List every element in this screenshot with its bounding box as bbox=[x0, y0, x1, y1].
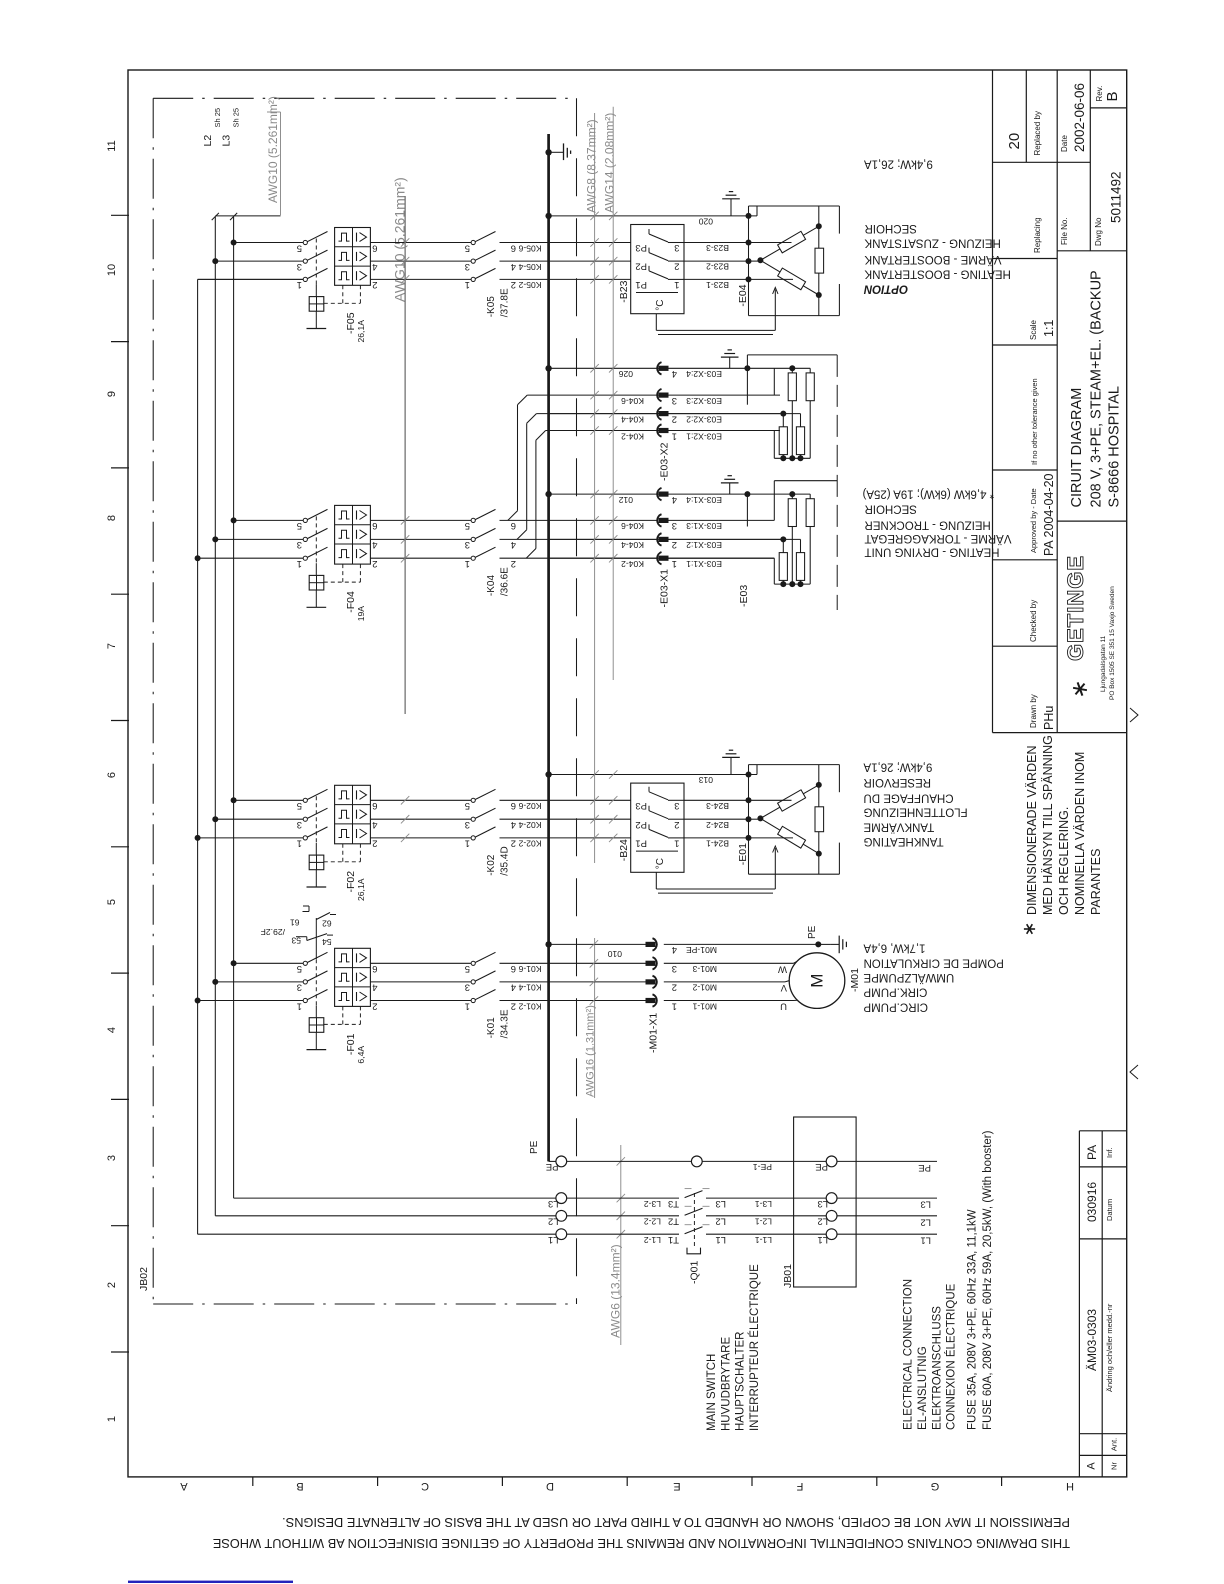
svg-text:E03-X2:2: E03-X2:2 bbox=[686, 414, 722, 424]
svg-text:L2: L2 bbox=[548, 1216, 559, 1227]
svg-text:MED HÄNSYN TILL SPÄNNING: MED HÄNSYN TILL SPÄNNING bbox=[1041, 735, 1055, 915]
svg-text:-K05: -K05 bbox=[486, 296, 497, 318]
svg-text:E03-X2:3: E03-X2:3 bbox=[686, 396, 722, 406]
svg-text:6,4A: 6,4A bbox=[356, 1046, 366, 1064]
svg-text:4: 4 bbox=[511, 539, 516, 550]
svg-text:JB02: JB02 bbox=[138, 1267, 150, 1291]
svg-text:010: 010 bbox=[607, 949, 622, 959]
svg-text:2002-06-06: 2002-06-06 bbox=[1072, 83, 1087, 152]
svg-text:B23-1: B23-1 bbox=[706, 280, 729, 290]
svg-text:62: 62 bbox=[322, 918, 332, 928]
svg-text:B: B bbox=[1104, 91, 1121, 101]
svg-text:1: 1 bbox=[297, 838, 302, 849]
svg-text:PE: PE bbox=[529, 1140, 540, 1154]
svg-text:3: 3 bbox=[465, 819, 470, 830]
svg-text:6: 6 bbox=[372, 242, 377, 253]
svg-text:FUSE 60A, 208V 3+PE, 60Hz 59A,: FUSE 60A, 208V 3+PE, 60Hz 59A, 20,5kW, (… bbox=[982, 1130, 994, 1430]
svg-text:DIMENSIONERADE VÄRDEN: DIMENSIONERADE VÄRDEN bbox=[1025, 746, 1039, 915]
svg-text:020: 020 bbox=[698, 216, 713, 226]
svg-text:8: 8 bbox=[106, 515, 118, 521]
svg-text:PARANTES: PARANTES bbox=[1089, 849, 1103, 915]
svg-text:3: 3 bbox=[672, 520, 677, 531]
svg-text:19A: 19A bbox=[356, 606, 366, 622]
svg-text:PE-1: PE-1 bbox=[753, 1162, 772, 1172]
svg-text:B: B bbox=[296, 1480, 303, 1492]
svg-text:UMWÄLZPUMPE: UMWÄLZPUMPE bbox=[863, 971, 954, 983]
svg-text:°C: °C bbox=[655, 858, 666, 869]
svg-text:P2: P2 bbox=[635, 819, 647, 830]
svg-text:3: 3 bbox=[297, 819, 302, 830]
svg-text:ELECTRICAL CONNECTION: ELECTRICAL CONNECTION bbox=[903, 1279, 915, 1430]
svg-text:2: 2 bbox=[372, 1000, 377, 1011]
svg-text:File No.: File No. bbox=[1060, 217, 1069, 245]
svg-text:3: 3 bbox=[672, 963, 677, 974]
svg-text:2: 2 bbox=[372, 279, 377, 290]
svg-text:1: 1 bbox=[297, 558, 302, 569]
svg-text:Inf.: Inf. bbox=[1105, 1148, 1114, 1158]
svg-text:T3: T3 bbox=[668, 1198, 679, 1209]
svg-text:T2: T2 bbox=[668, 1216, 679, 1227]
svg-text:L3: L3 bbox=[920, 1199, 931, 1210]
svg-text:2: 2 bbox=[672, 413, 677, 424]
svg-text:5: 5 bbox=[297, 242, 302, 253]
svg-text:T1: T1 bbox=[668, 1234, 679, 1245]
svg-text:9,4kW; 26,1A: 9,4kW; 26,1A bbox=[864, 157, 933, 169]
svg-text:L2: L2 bbox=[202, 135, 214, 147]
svg-text:L3: L3 bbox=[817, 1198, 828, 1209]
svg-text:6: 6 bbox=[372, 520, 377, 531]
svg-text:-E03: -E03 bbox=[738, 585, 750, 607]
svg-text:7: 7 bbox=[106, 643, 118, 649]
svg-text:-E03-X2: -E03-X2 bbox=[659, 442, 671, 481]
svg-text:2: 2 bbox=[106, 1282, 118, 1288]
svg-text:L1-1: L1-1 bbox=[755, 1235, 772, 1245]
svg-text:AWG16 (1.31mm²): AWG16 (1.31mm²) bbox=[585, 1005, 597, 1097]
svg-text:S-8666 HOSPITAL: S-8666 HOSPITAL bbox=[1107, 386, 1123, 507]
svg-text:AWG8 (8.37mm²): AWG8 (8.37mm²) bbox=[584, 119, 598, 213]
svg-text:E03-X1:3: E03-X1:3 bbox=[686, 521, 722, 531]
svg-text:ELEKTROANSCHLUSS: ELEKTROANSCHLUSS bbox=[931, 1306, 943, 1430]
svg-text:3: 3 bbox=[465, 539, 470, 550]
svg-text:Sh 25: Sh 25 bbox=[231, 108, 240, 128]
svg-text:4: 4 bbox=[672, 368, 677, 379]
svg-text:L2: L2 bbox=[715, 1216, 726, 1227]
svg-text:5: 5 bbox=[297, 963, 302, 974]
svg-text:PERMISSION IT MAY NOT BE COPIE: PERMISSION IT MAY NOT BE COPIED, SHOWN O… bbox=[282, 1515, 1070, 1530]
svg-text:MAIN SWITCH: MAIN SWITCH bbox=[706, 1354, 718, 1431]
svg-text:5: 5 bbox=[465, 520, 470, 531]
svg-text:POMPE DE CIRKULATION: POMPE DE CIRKULATION bbox=[864, 957, 1004, 969]
svg-text:012: 012 bbox=[618, 495, 633, 505]
svg-text:PE: PE bbox=[918, 1162, 931, 1173]
svg-text:5: 5 bbox=[465, 242, 470, 253]
svg-text:L1: L1 bbox=[548, 1234, 559, 1245]
svg-text:2: 2 bbox=[674, 261, 679, 272]
svg-text:K04-2: K04-2 bbox=[621, 431, 644, 441]
svg-text:K04-4: K04-4 bbox=[621, 414, 644, 424]
svg-text:6: 6 bbox=[106, 772, 118, 778]
svg-text:3: 3 bbox=[674, 242, 679, 253]
svg-text:K01-2: K01-2 bbox=[518, 1001, 541, 1011]
svg-text:TANKHEATING: TANKHEATING bbox=[863, 835, 943, 847]
svg-text:1: 1 bbox=[106, 1416, 118, 1422]
svg-text:/37.8E: /37.8E bbox=[500, 288, 511, 317]
svg-text:THIS DRAWING CONTAINS CONFIDEN: THIS DRAWING CONTAINS CONFIDENTIAL INFOR… bbox=[213, 1536, 1070, 1551]
svg-text:4: 4 bbox=[672, 944, 677, 955]
svg-text:/35.4D: /35.4D bbox=[500, 846, 511, 875]
svg-text:GETINGE: GETINGE bbox=[1063, 555, 1088, 661]
svg-text:V: V bbox=[780, 982, 787, 993]
svg-text:53: 53 bbox=[291, 935, 301, 945]
svg-text:L3: L3 bbox=[220, 135, 232, 147]
svg-text:SECHOIR: SECHOIR bbox=[865, 222, 917, 234]
svg-text:-B23: -B23 bbox=[618, 280, 630, 302]
svg-text:L1: L1 bbox=[817, 1234, 828, 1245]
svg-text:OPTION: OPTION bbox=[863, 282, 908, 294]
svg-text:1,7kW, 6,4A: 1,7kW, 6,4A bbox=[863, 942, 925, 954]
svg-text:2: 2 bbox=[372, 558, 377, 569]
svg-text:61: 61 bbox=[290, 918, 300, 928]
svg-text:CIRUIT DIAGRAM: CIRUIT DIAGRAM bbox=[1069, 388, 1085, 508]
svg-text:3: 3 bbox=[674, 800, 679, 811]
svg-text:EL-ANSLUTNIG: EL-ANSLUTNIG bbox=[917, 1346, 929, 1430]
svg-text:4: 4 bbox=[511, 261, 516, 272]
svg-text:W: W bbox=[778, 964, 787, 975]
svg-text:9,4kW; 26,1A: 9,4kW; 26,1A bbox=[863, 761, 932, 773]
svg-text:6: 6 bbox=[511, 242, 516, 253]
svg-text:L2-2: L2-2 bbox=[644, 1217, 661, 1227]
svg-text:PO Box 1505 SE 351 15 Vaxjo Sw: PO Box 1505 SE 351 15 Vaxjo Sweden bbox=[1109, 586, 1116, 700]
svg-text:6: 6 bbox=[372, 800, 377, 811]
svg-text:HEIZUNG - TROCKNER: HEIZUNG - TROCKNER bbox=[865, 518, 991, 530]
svg-text:If no other tolerance given: If no other tolerance given bbox=[1030, 378, 1039, 465]
svg-text:3: 3 bbox=[297, 539, 302, 550]
svg-text:G: G bbox=[931, 1480, 940, 1492]
svg-text:5: 5 bbox=[297, 800, 302, 811]
svg-text:E03-X2:4: E03-X2:4 bbox=[686, 369, 722, 379]
svg-text:Dwg No: Dwg No bbox=[1094, 217, 1103, 246]
svg-text:Sh 25: Sh 25 bbox=[213, 108, 222, 128]
svg-text:5: 5 bbox=[297, 520, 302, 531]
svg-text:Rev.: Rev. bbox=[1095, 86, 1104, 102]
svg-text:013: 013 bbox=[698, 775, 713, 785]
svg-text:L1-2: L1-2 bbox=[644, 1235, 661, 1245]
svg-text:-K01: -K01 bbox=[486, 1017, 497, 1039]
svg-text:B24-3: B24-3 bbox=[706, 801, 729, 811]
svg-text:K04-6: K04-6 bbox=[621, 521, 644, 531]
svg-text:10: 10 bbox=[106, 264, 118, 276]
svg-text:1: 1 bbox=[465, 838, 470, 849]
svg-text:M: M bbox=[808, 974, 827, 988]
svg-text:PE: PE bbox=[807, 925, 818, 939]
svg-text:-K02: -K02 bbox=[486, 854, 497, 876]
svg-text:VÄRME - BOOSTERTANK: VÄRME - BOOSTERTANK bbox=[864, 253, 1001, 265]
svg-text:026: 026 bbox=[618, 369, 633, 379]
svg-text:HAUPTSCHALTER: HAUPTSCHALTER bbox=[735, 1332, 747, 1431]
svg-text:K05-6: K05-6 bbox=[518, 243, 541, 253]
svg-text:P3: P3 bbox=[635, 242, 647, 253]
svg-text:Nr: Nr bbox=[1110, 1462, 1119, 1470]
svg-text:B24-2: B24-2 bbox=[706, 820, 729, 830]
svg-text:4: 4 bbox=[372, 819, 377, 830]
svg-text:PE: PE bbox=[815, 1161, 828, 1172]
svg-text:PA 2004-04-20: PA 2004-04-20 bbox=[1042, 473, 1056, 556]
svg-text:K04-2: K04-2 bbox=[621, 559, 644, 569]
svg-text:HEIZUNG - ZUSATSTANK: HEIZUNG - ZUSATSTANK bbox=[864, 237, 1001, 249]
svg-text:B24-1: B24-1 bbox=[706, 839, 729, 849]
svg-text:6: 6 bbox=[511, 520, 516, 531]
svg-text:B23-2: B23-2 bbox=[706, 262, 729, 272]
svg-text:RESERVOIR: RESERVOIR bbox=[864, 776, 932, 788]
svg-text:K01-6: K01-6 bbox=[518, 964, 541, 974]
svg-text:26,1A: 26,1A bbox=[356, 320, 366, 343]
svg-text:Checked by: Checked by bbox=[1029, 600, 1038, 642]
svg-text:Replacing: Replacing bbox=[1033, 217, 1042, 253]
svg-text:K02-2: K02-2 bbox=[518, 839, 541, 849]
svg-text:1: 1 bbox=[672, 1000, 677, 1011]
svg-text:HEATING - DRYING UNIT: HEATING - DRYING UNIT bbox=[865, 546, 1000, 558]
svg-text:3: 3 bbox=[465, 261, 470, 272]
svg-text:E03-X2:1: E03-X2:1 bbox=[686, 431, 722, 441]
svg-text:4: 4 bbox=[511, 819, 516, 830]
svg-text:Ljungadalsgatan 11: Ljungadalsgatan 11 bbox=[1100, 635, 1107, 692]
svg-text:L2: L2 bbox=[920, 1216, 931, 1227]
svg-text:Ant.: Ant. bbox=[1110, 1438, 1119, 1451]
svg-text:-Q01: -Q01 bbox=[689, 1260, 701, 1284]
svg-text:L2: L2 bbox=[817, 1216, 828, 1227]
svg-text:-B24: -B24 bbox=[618, 839, 630, 861]
svg-text:P3: P3 bbox=[635, 800, 647, 811]
svg-text:5: 5 bbox=[465, 963, 470, 974]
svg-text:3: 3 bbox=[672, 395, 677, 406]
svg-text:208 V, 3+PE, STEAM+EL. (BACKUP: 208 V, 3+PE, STEAM+EL. (BACKUP bbox=[1089, 270, 1105, 507]
svg-text:20: 20 bbox=[1006, 133, 1023, 150]
svg-text:E03-X1:4: E03-X1:4 bbox=[686, 495, 722, 505]
svg-text:2: 2 bbox=[511, 838, 516, 849]
svg-text:K02-6: K02-6 bbox=[518, 801, 541, 811]
svg-text:E: E bbox=[673, 1480, 680, 1492]
svg-text:A: A bbox=[180, 1480, 188, 1492]
svg-text:2: 2 bbox=[674, 819, 679, 830]
svg-text:1: 1 bbox=[465, 1000, 470, 1011]
svg-text:26,1A: 26,1A bbox=[356, 878, 366, 901]
svg-text:4: 4 bbox=[672, 494, 677, 505]
svg-text:Drawn by: Drawn by bbox=[1029, 694, 1038, 728]
svg-text:Replaced by: Replaced by bbox=[1033, 111, 1042, 155]
svg-text:M01-3: M01-3 bbox=[692, 964, 717, 974]
svg-text:-K04: -K04 bbox=[486, 575, 497, 597]
svg-text:D: D bbox=[546, 1480, 554, 1492]
svg-text:/29.2F: /29.2F bbox=[261, 927, 285, 937]
svg-text:2: 2 bbox=[511, 558, 516, 569]
svg-text:030916: 030916 bbox=[1085, 1182, 1099, 1222]
svg-text:SECHOIR: SECHOIR bbox=[865, 503, 917, 515]
svg-text:JB01: JB01 bbox=[782, 1264, 794, 1288]
svg-text:5011492: 5011492 bbox=[1109, 171, 1124, 223]
svg-text:Datum: Datum bbox=[1105, 1199, 1114, 1221]
svg-text:CIRC.PUMP: CIRC.PUMP bbox=[863, 1000, 928, 1012]
svg-text:2: 2 bbox=[511, 1000, 516, 1011]
svg-text:TANKVÄRME: TANKVÄRME bbox=[863, 821, 934, 833]
svg-text:K05-2: K05-2 bbox=[518, 280, 541, 290]
svg-text:AWG6 (13.4mm²): AWG6 (13.4mm²) bbox=[609, 1244, 623, 1338]
svg-text:1: 1 bbox=[465, 558, 470, 569]
svg-text:5: 5 bbox=[106, 899, 118, 905]
svg-text:1: 1 bbox=[672, 558, 677, 569]
svg-text:K05-4: K05-4 bbox=[518, 262, 541, 272]
svg-text:6: 6 bbox=[511, 800, 516, 811]
svg-text:L3-1: L3-1 bbox=[755, 1199, 772, 1209]
svg-text:2: 2 bbox=[672, 982, 677, 993]
svg-text:* 4,6kW (6kW); 19A (25A): * 4,6kW (6kW); 19A (25A) bbox=[862, 487, 994, 499]
svg-text:-M01: -M01 bbox=[849, 968, 861, 992]
svg-text:AWG14 (2.08mm²): AWG14 (2.08mm²) bbox=[603, 113, 617, 213]
svg-text:Approved by - Date: Approved by - Date bbox=[1029, 488, 1038, 553]
svg-text:4: 4 bbox=[511, 982, 516, 993]
svg-text:L1: L1 bbox=[715, 1234, 726, 1245]
svg-text:1: 1 bbox=[297, 1000, 302, 1011]
svg-text:Ändring och/eller medd.-nr: Ändring och/eller medd.-nr bbox=[1105, 1303, 1114, 1392]
svg-text:3: 3 bbox=[297, 261, 302, 272]
svg-text:B23-3: B23-3 bbox=[706, 243, 729, 253]
svg-text:P1: P1 bbox=[635, 838, 647, 849]
svg-text:P2: P2 bbox=[635, 261, 647, 272]
svg-text:L3-2: L3-2 bbox=[644, 1199, 661, 1209]
svg-text:-E01: -E01 bbox=[737, 843, 749, 865]
svg-text:5: 5 bbox=[465, 800, 470, 811]
svg-text:4: 4 bbox=[106, 1027, 118, 1033]
svg-text:PHu: PHu bbox=[1042, 706, 1056, 730]
svg-text:H: H bbox=[1066, 1480, 1074, 1492]
svg-text:-M01-X1: -M01-X1 bbox=[648, 1013, 660, 1053]
svg-text:K01-4: K01-4 bbox=[518, 983, 541, 993]
svg-text:HEATING - BOOSTERTANK: HEATING - BOOSTERTANK bbox=[864, 268, 1011, 280]
svg-text:HUVUDBRYTARE: HUVUDBRYTARE bbox=[720, 1337, 732, 1431]
svg-text:L3: L3 bbox=[715, 1198, 726, 1209]
svg-text:6: 6 bbox=[372, 963, 377, 974]
svg-text:-E03-X1: -E03-X1 bbox=[659, 569, 671, 608]
svg-text:11: 11 bbox=[106, 140, 118, 151]
svg-text:/34.3E: /34.3E bbox=[500, 1009, 511, 1038]
svg-text:ÄM03-0303: ÄM03-0303 bbox=[1085, 1309, 1099, 1371]
svg-text:OCH REGLERING.: OCH REGLERING. bbox=[1057, 807, 1071, 915]
svg-text:3: 3 bbox=[297, 982, 302, 993]
svg-text:1: 1 bbox=[465, 279, 470, 290]
svg-text:F: F bbox=[796, 1480, 803, 1492]
svg-text:VÄRME - TORKAGGREGAT: VÄRME - TORKAGGREGAT bbox=[865, 532, 1012, 544]
svg-text:AWG10 (5.261mm²): AWG10 (5.261mm²) bbox=[392, 177, 408, 302]
svg-text:1: 1 bbox=[672, 430, 677, 441]
svg-text:-E04: -E04 bbox=[737, 284, 749, 306]
svg-text:K04-4: K04-4 bbox=[621, 540, 644, 550]
svg-text:L2-1: L2-1 bbox=[755, 1217, 772, 1227]
svg-text:FUSE 35A, 208V 3+PE, 60Hz 33A,: FUSE 35A, 208V 3+PE, 60Hz 33A, 11,1kW bbox=[967, 1209, 979, 1430]
svg-text:2: 2 bbox=[372, 838, 377, 849]
svg-text:CONNEXION ÉLECTRIQUE: CONNEXION ÉLECTRIQUE bbox=[945, 1283, 958, 1430]
svg-text:PA: PA bbox=[1085, 1145, 1099, 1160]
svg-text:6: 6 bbox=[511, 963, 516, 974]
svg-text:PE: PE bbox=[546, 1161, 559, 1172]
svg-text:Date: Date bbox=[1060, 135, 1069, 152]
svg-text:2: 2 bbox=[511, 279, 516, 290]
svg-text:K02-4: K02-4 bbox=[518, 820, 541, 830]
svg-text:1: 1 bbox=[297, 279, 302, 290]
svg-text:4: 4 bbox=[372, 539, 377, 550]
svg-text:2: 2 bbox=[672, 539, 677, 550]
svg-text:3: 3 bbox=[106, 1155, 118, 1161]
svg-text:U: U bbox=[780, 1000, 787, 1011]
svg-text:L3: L3 bbox=[548, 1198, 559, 1209]
svg-text:L1: L1 bbox=[920, 1235, 931, 1246]
svg-text:E03-X1:2: E03-X1:2 bbox=[686, 540, 722, 550]
svg-text:K04-6: K04-6 bbox=[621, 396, 644, 406]
svg-text:54: 54 bbox=[322, 937, 332, 947]
svg-text:3: 3 bbox=[465, 982, 470, 993]
svg-text:9: 9 bbox=[106, 391, 118, 397]
svg-text:P1: P1 bbox=[635, 279, 647, 290]
svg-text:E03-X1:1: E03-X1:1 bbox=[686, 559, 722, 569]
svg-text:1:1: 1:1 bbox=[1042, 320, 1056, 337]
svg-text:M01-PE: M01-PE bbox=[686, 945, 717, 955]
svg-text:CHAUFFAGE DU: CHAUFFAGE DU bbox=[864, 792, 954, 804]
svg-text:CIRK.PUMP: CIRK.PUMP bbox=[863, 986, 927, 998]
svg-text:INTERRUPTEUR ÉLECTRIQUE: INTERRUPTEUR ÉLECTRIQUE bbox=[748, 1264, 761, 1431]
svg-text:M01-1: M01-1 bbox=[692, 1001, 717, 1011]
svg-text:4: 4 bbox=[372, 982, 377, 993]
svg-text:/36.6E: /36.6E bbox=[500, 567, 511, 596]
svg-text:1: 1 bbox=[674, 838, 679, 849]
svg-text:Scale: Scale bbox=[1029, 319, 1038, 340]
svg-text:M01-2: M01-2 bbox=[692, 983, 717, 993]
svg-text:°C: °C bbox=[655, 299, 666, 310]
svg-text:A: A bbox=[1086, 1462, 1098, 1470]
svg-text:1: 1 bbox=[674, 279, 679, 290]
svg-text:4: 4 bbox=[372, 261, 377, 272]
svg-text:NOMINELLA VÄRDEN INOM: NOMINELLA VÄRDEN INOM bbox=[1073, 752, 1087, 915]
svg-text:C: C bbox=[421, 1480, 429, 1492]
svg-text:FLOTTENHEIZUNG: FLOTTENHEIZUNG bbox=[863, 806, 967, 818]
